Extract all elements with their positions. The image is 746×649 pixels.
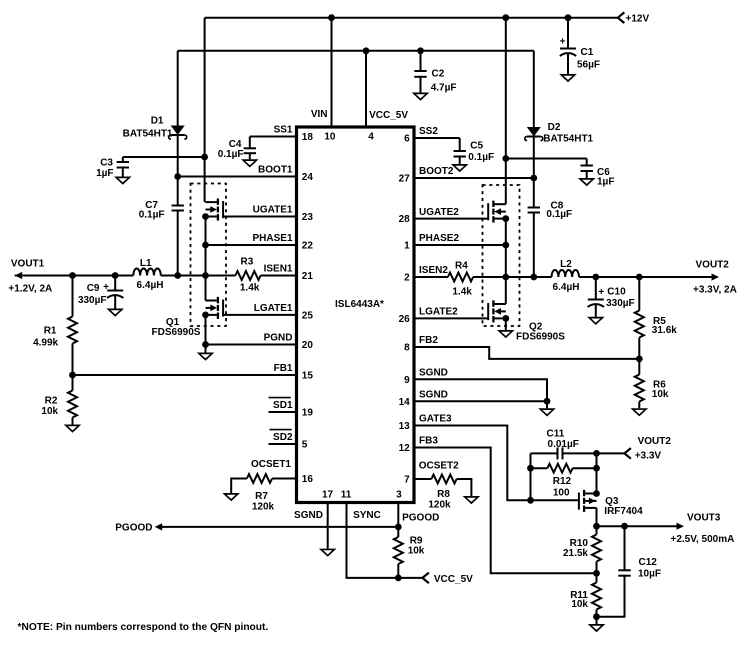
- svg-text:27: 27: [399, 174, 411, 185]
- svg-text:1.4k: 1.4k: [240, 283, 260, 294]
- svg-text:C1: C1: [581, 47, 594, 58]
- svg-text:4.99k: 4.99k: [33, 338, 58, 349]
- svg-text:LGATE1: LGATE1: [254, 303, 293, 314]
- svg-text:16: 16: [302, 474, 314, 485]
- svg-text:C2: C2: [432, 69, 445, 80]
- svg-text:PGOOD: PGOOD: [402, 513, 439, 524]
- svg-text:R1: R1: [44, 326, 57, 337]
- svg-text:SGND: SGND: [294, 510, 323, 521]
- svg-text:1.4k: 1.4k: [452, 286, 472, 297]
- svg-text:+: +: [103, 282, 109, 293]
- svg-text:FDS6990S: FDS6990S: [516, 331, 565, 342]
- svg-text:C12: C12: [639, 557, 658, 568]
- svg-text:SGND: SGND: [419, 389, 448, 400]
- svg-text:C3: C3: [100, 157, 113, 168]
- svg-text:UGATE2: UGATE2: [419, 207, 459, 218]
- svg-text:C9: C9: [87, 283, 100, 294]
- svg-text:0.1µF: 0.1µF: [139, 210, 165, 221]
- svg-text:BOOT1: BOOT1: [258, 165, 293, 176]
- svg-text:10k: 10k: [408, 546, 425, 557]
- svg-text:21.5k: 21.5k: [563, 548, 588, 559]
- svg-text:4.7µF: 4.7µF: [431, 83, 457, 94]
- svg-text:C11: C11: [547, 428, 565, 439]
- svg-text:56µF: 56µF: [577, 60, 600, 71]
- svg-text:FB1: FB1: [274, 363, 293, 374]
- svg-text:10k: 10k: [41, 406, 58, 417]
- svg-text:23: 23: [302, 212, 314, 223]
- svg-text:R8: R8: [437, 489, 450, 500]
- svg-text:+: +: [560, 37, 566, 48]
- svg-text:BOOT2: BOOT2: [419, 166, 454, 177]
- svg-text:0.1µF: 0.1µF: [546, 209, 572, 220]
- svg-text:10k: 10k: [652, 389, 669, 400]
- svg-text:20: 20: [302, 340, 314, 351]
- svg-text:330µF: 330µF: [78, 295, 107, 306]
- svg-text:ISEN2: ISEN2: [419, 265, 448, 276]
- svg-text:PHASE2: PHASE2: [419, 233, 459, 244]
- svg-text:VCC_5V: VCC_5V: [369, 110, 408, 121]
- svg-text:ISEN1: ISEN1: [264, 264, 293, 275]
- svg-text:10: 10: [324, 132, 336, 143]
- svg-text:6: 6: [404, 134, 410, 145]
- svg-text:5: 5: [302, 440, 308, 451]
- svg-text:OCSET2: OCSET2: [419, 461, 459, 472]
- svg-text:VOUT1: VOUT1: [11, 258, 45, 269]
- svg-text:R4: R4: [455, 260, 468, 271]
- svg-text:330µF: 330µF: [606, 298, 635, 309]
- svg-text:+12V: +12V: [626, 14, 650, 25]
- svg-text:7: 7: [404, 475, 410, 486]
- svg-text:R12: R12: [553, 476, 572, 487]
- svg-text:ISL6443A*: ISL6443A*: [335, 299, 384, 310]
- svg-text:2: 2: [404, 273, 410, 284]
- svg-text:1µF: 1µF: [597, 176, 614, 187]
- svg-text:25: 25: [302, 311, 314, 322]
- svg-text:26: 26: [399, 314, 411, 325]
- svg-text:D2: D2: [548, 122, 561, 133]
- svg-text:28: 28: [399, 214, 411, 225]
- svg-text:SD1: SD1: [273, 400, 293, 411]
- svg-text:9: 9: [404, 375, 410, 386]
- svg-text:19: 19: [302, 408, 314, 419]
- svg-text:14: 14: [399, 397, 411, 408]
- svg-text:SD2: SD2: [273, 432, 293, 443]
- svg-text:15: 15: [302, 371, 314, 382]
- svg-text:FDS6990S: FDS6990S: [152, 327, 201, 338]
- svg-text:R3: R3: [241, 257, 254, 268]
- svg-text:120k: 120k: [252, 501, 275, 512]
- svg-text:OCSET1: OCSET1: [251, 459, 291, 470]
- svg-text:+2.5V, 500mA: +2.5V, 500mA: [671, 534, 735, 545]
- svg-text:VOUT2: VOUT2: [696, 259, 730, 270]
- svg-text:L1: L1: [140, 258, 152, 269]
- svg-text:+3.3V: +3.3V: [635, 451, 662, 462]
- svg-text:BAT54HT1: BAT54HT1: [123, 128, 173, 139]
- svg-text:FB3: FB3: [419, 436, 438, 447]
- svg-text:BAT54HT1: BAT54HT1: [543, 133, 593, 144]
- svg-text:LGATE2: LGATE2: [419, 307, 458, 318]
- svg-text:IRF7404: IRF7404: [604, 506, 643, 517]
- svg-text:100: 100: [553, 488, 570, 499]
- svg-text:24: 24: [302, 172, 314, 183]
- svg-text:1µF: 1µF: [96, 168, 113, 179]
- svg-text:GATE3: GATE3: [419, 414, 452, 425]
- svg-text:UGATE1: UGATE1: [253, 205, 293, 216]
- svg-text:13: 13: [399, 421, 411, 432]
- svg-text:8: 8: [404, 343, 410, 354]
- svg-text:SYNC: SYNC: [353, 510, 381, 521]
- svg-text:0.1µF: 0.1µF: [468, 152, 494, 163]
- svg-text:17: 17: [322, 490, 334, 501]
- svg-text:PGND: PGND: [264, 333, 293, 344]
- svg-text:+3.3V, 2A: +3.3V, 2A: [693, 284, 737, 295]
- svg-text:PHASE1: PHASE1: [252, 233, 292, 244]
- svg-text:C5: C5: [470, 140, 483, 151]
- svg-text:0.01µF: 0.01µF: [548, 439, 579, 450]
- svg-text:+1.2V, 2A: +1.2V, 2A: [8, 283, 52, 294]
- svg-text:VOUT2: VOUT2: [638, 436, 672, 447]
- svg-text:18: 18: [302, 132, 314, 143]
- svg-text:10µF: 10µF: [638, 569, 661, 580]
- svg-text:FB2: FB2: [419, 335, 438, 346]
- svg-text:6.4µH: 6.4µH: [137, 280, 164, 291]
- svg-text:10k: 10k: [571, 599, 588, 610]
- svg-text:VCC_5V: VCC_5V: [434, 574, 473, 585]
- svg-text:0.1µF: 0.1µF: [218, 149, 244, 160]
- svg-text:PGOOD: PGOOD: [115, 522, 152, 533]
- svg-text:+: +: [598, 287, 604, 298]
- svg-text:4: 4: [368, 132, 374, 143]
- svg-text:120k: 120k: [428, 500, 451, 511]
- svg-text:21: 21: [302, 271, 314, 282]
- svg-text:SGND: SGND: [419, 368, 448, 379]
- svg-text:VIN: VIN: [311, 109, 328, 120]
- svg-text:SS2: SS2: [419, 126, 438, 137]
- svg-text:C10: C10: [607, 286, 626, 297]
- svg-text:31.6k: 31.6k: [652, 325, 677, 336]
- svg-text:12: 12: [399, 443, 411, 454]
- svg-text:11: 11: [341, 490, 352, 501]
- svg-text:6.4µH: 6.4µH: [553, 282, 580, 293]
- svg-text:L2: L2: [560, 259, 572, 270]
- svg-text:D1: D1: [151, 116, 164, 127]
- svg-text:SS1: SS1: [274, 125, 293, 136]
- svg-text:*NOTE: Pin numbers correspond: *NOTE: Pin numbers correspond to the QFN…: [18, 622, 269, 633]
- svg-text:1: 1: [404, 241, 410, 252]
- svg-text:VOUT3: VOUT3: [687, 512, 721, 523]
- svg-text:3: 3: [396, 490, 402, 501]
- svg-text:22: 22: [302, 241, 314, 252]
